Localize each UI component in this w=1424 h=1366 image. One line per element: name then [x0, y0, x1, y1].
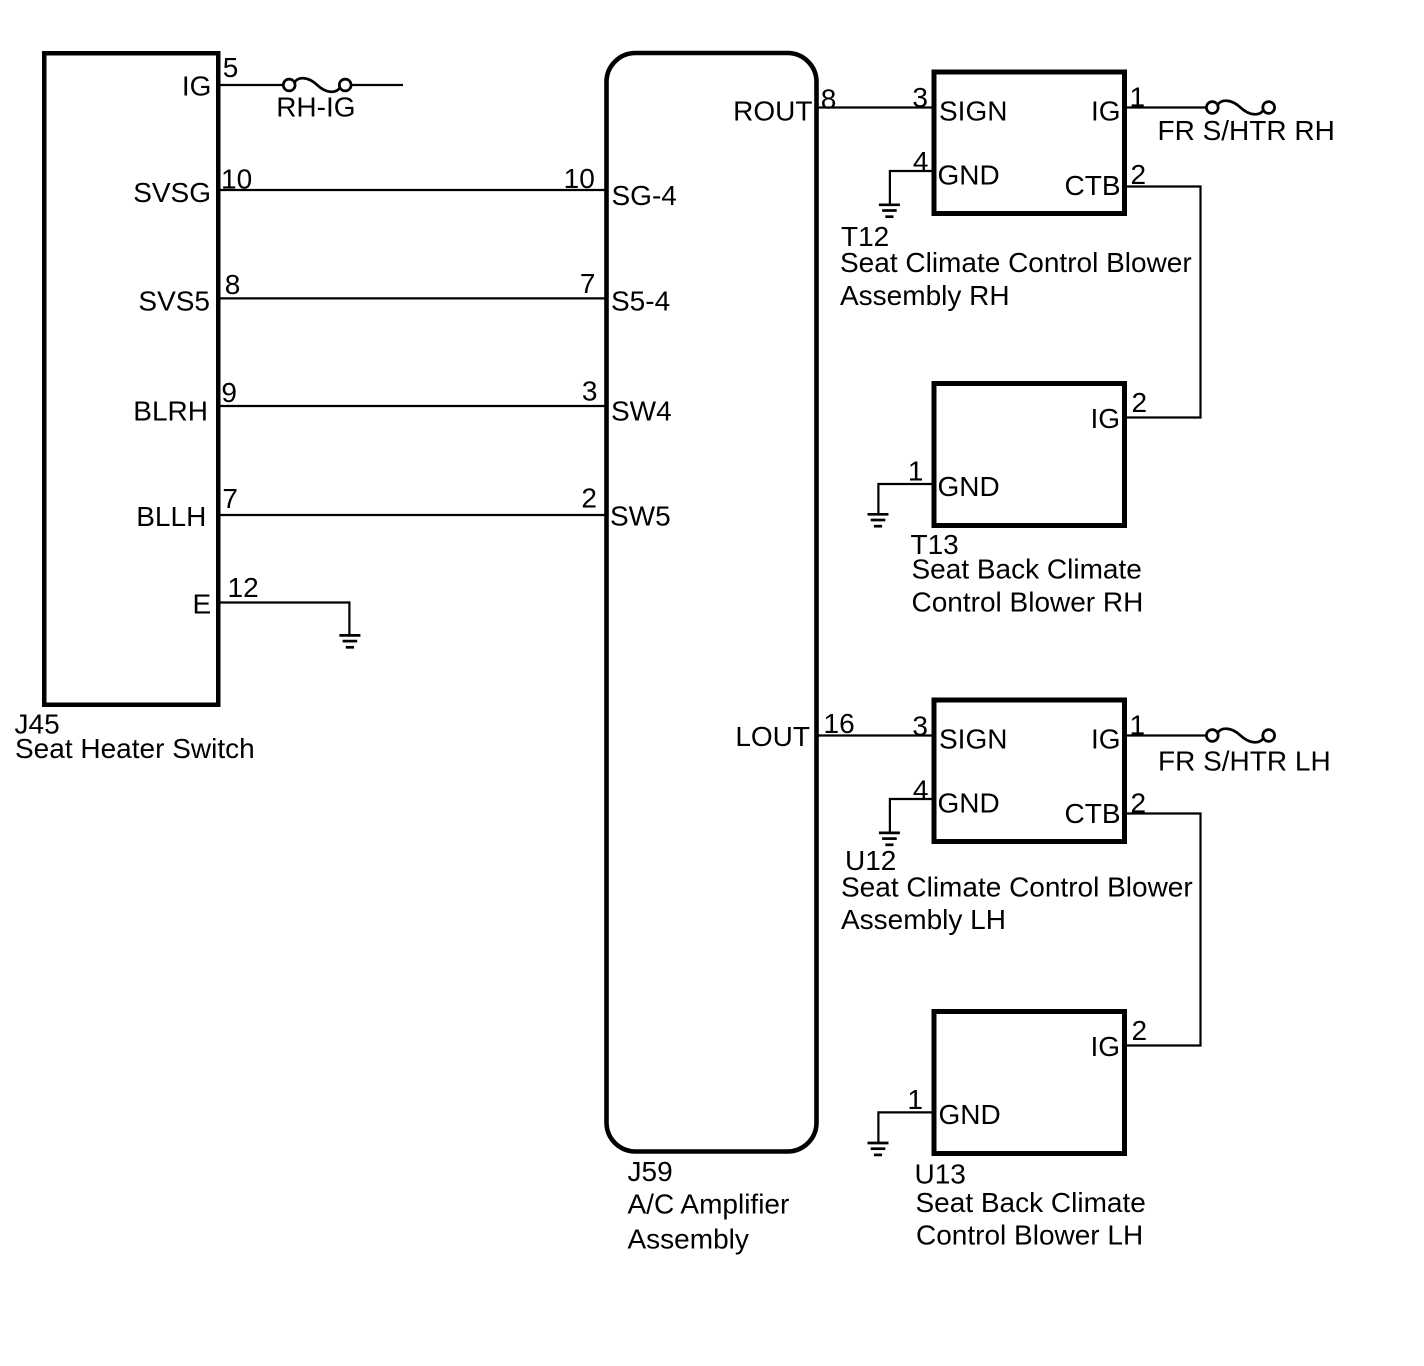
svg-text:Assembly: Assembly — [628, 1224, 749, 1255]
svg-text:RH-IG: RH-IG — [276, 92, 355, 123]
svg-text:Control Blower LH: Control Blower LH — [916, 1220, 1143, 1251]
svg-text:5: 5 — [223, 52, 239, 83]
svg-text:2: 2 — [1131, 787, 1147, 818]
svg-text:Seat Heater Switch: Seat Heater Switch — [15, 733, 255, 764]
svg-text:4: 4 — [913, 146, 929, 177]
svg-text:FR S/HTR LH: FR S/HTR LH — [1158, 746, 1331, 777]
svg-text:1: 1 — [1130, 82, 1146, 113]
svg-text:9: 9 — [221, 377, 237, 408]
svg-text:IG: IG — [1091, 96, 1121, 127]
svg-text:ROUT: ROUT — [733, 96, 812, 127]
svg-text:IG: IG — [1091, 724, 1121, 755]
svg-text:7: 7 — [222, 483, 238, 514]
svg-text:IG: IG — [1090, 403, 1120, 434]
svg-text:3: 3 — [912, 82, 928, 113]
svg-text:S5-4: S5-4 — [611, 286, 670, 317]
svg-text:SIGN: SIGN — [939, 724, 1007, 755]
svg-text:CTB: CTB — [1065, 170, 1121, 201]
svg-text:GND: GND — [938, 471, 1000, 502]
svg-text:BLRH: BLRH — [133, 396, 208, 427]
svg-text:2: 2 — [1132, 387, 1148, 418]
svg-text:2: 2 — [1132, 1015, 1148, 1046]
svg-text:IG: IG — [1090, 1031, 1120, 1062]
svg-text:FR S/HTR RH: FR S/HTR RH — [1158, 115, 1335, 146]
svg-text:IG: IG — [182, 70, 212, 101]
svg-text:16: 16 — [824, 708, 855, 739]
svg-text:CTB: CTB — [1065, 798, 1121, 829]
svg-text:GND: GND — [938, 159, 1000, 190]
svg-text:SVS5: SVS5 — [138, 285, 210, 316]
svg-text:3: 3 — [912, 710, 928, 741]
svg-text:Assembly LH: Assembly LH — [841, 904, 1006, 935]
svg-text:10: 10 — [221, 163, 252, 194]
svg-text:GND: GND — [938, 787, 1000, 818]
svg-text:Seat Back Climate: Seat Back Climate — [916, 1187, 1146, 1218]
svg-text:8: 8 — [225, 269, 241, 300]
svg-text:Assembly RH: Assembly RH — [840, 280, 1010, 311]
svg-text:2: 2 — [581, 483, 597, 514]
svg-text:E: E — [193, 589, 212, 620]
svg-text:Seat Back Climate: Seat Back Climate — [912, 554, 1142, 585]
svg-text:2: 2 — [1131, 159, 1147, 190]
svg-text:SW4: SW4 — [611, 396, 672, 427]
svg-text:7: 7 — [580, 268, 596, 299]
svg-text:10: 10 — [564, 163, 595, 194]
svg-text:SG-4: SG-4 — [612, 180, 677, 211]
svg-text:SIGN: SIGN — [939, 96, 1007, 127]
svg-text:A/C Amplifier: A/C Amplifier — [628, 1189, 790, 1220]
svg-text:1: 1 — [907, 1084, 923, 1115]
svg-text:8: 8 — [821, 83, 837, 114]
svg-text:LOUT: LOUT — [735, 721, 810, 752]
svg-text:Seat Climate Control Blower: Seat Climate Control Blower — [841, 872, 1193, 903]
svg-text:J59: J59 — [628, 1156, 673, 1187]
svg-text:SW5: SW5 — [610, 501, 671, 532]
svg-text:12: 12 — [228, 572, 259, 603]
svg-text:1: 1 — [1130, 709, 1146, 740]
svg-text:1: 1 — [908, 456, 924, 487]
svg-text:Control Blower RH: Control Blower RH — [912, 587, 1144, 618]
svg-text:BLLH: BLLH — [136, 501, 206, 532]
svg-text:3: 3 — [582, 376, 598, 407]
svg-text:4: 4 — [913, 775, 929, 806]
svg-text:SVSG: SVSG — [133, 177, 211, 208]
svg-text:GND: GND — [939, 1099, 1001, 1130]
svg-text:Seat Climate Control Blower: Seat Climate Control Blower — [840, 247, 1192, 278]
svg-text:U13: U13 — [915, 1159, 966, 1190]
